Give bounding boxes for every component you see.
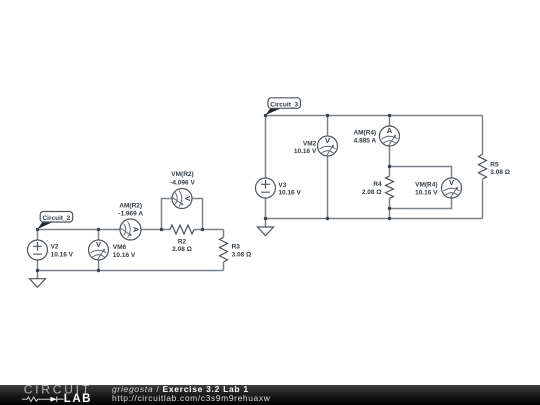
svg-text:A: A [132,227,141,233]
svg-text:VM(R4): VM(R4) [415,182,437,189]
svg-text:10.16 V: 10.16 V [113,252,136,259]
svg-text:R5: R5 [490,161,499,168]
svg-text:AM(R4): AM(R4) [353,130,376,137]
svg-text:V: V [183,196,192,201]
svg-text:4.885 A: 4.885 A [354,138,377,145]
svg-text:10.16 V: 10.16 V [278,189,301,196]
svg-text:VM6: VM6 [113,244,127,251]
svg-text:LAB: LAB [64,393,92,405]
svg-text:10.16 V: 10.16 V [294,148,317,155]
svg-text:V2: V2 [51,244,59,251]
svg-text:AM(R2): AM(R2) [119,202,142,209]
svg-text:R3: R3 [232,244,241,251]
svg-text:A: A [387,126,393,135]
svg-text:10.16 V: 10.16 V [51,251,74,258]
svg-text:V: V [96,240,101,249]
svg-text:3.08 Ω: 3.08 Ω [232,251,252,258]
svg-text:-1.969 A: -1.969 A [118,210,143,217]
svg-text:V3: V3 [278,182,286,189]
svg-text:Circuit_3: Circuit_3 [270,101,298,108]
svg-text:R4: R4 [373,181,382,188]
svg-text:R2: R2 [178,238,187,245]
svg-text:VM2: VM2 [303,140,317,147]
svg-text:2.08 Ω: 2.08 Ω [172,246,192,253]
svg-text:V: V [325,136,330,145]
svg-text:VM(R2): VM(R2) [171,171,193,178]
svg-text:Circuit_2: Circuit_2 [42,215,70,222]
svg-text:3.08 Ω: 3.08 Ω [490,169,510,176]
svg-text:-4.096 V: -4.096 V [170,179,195,186]
svg-text:V: V [449,178,454,187]
svg-text:10.16 V: 10.16 V [415,190,438,197]
svg-text:2.08 Ω: 2.08 Ω [362,189,382,196]
